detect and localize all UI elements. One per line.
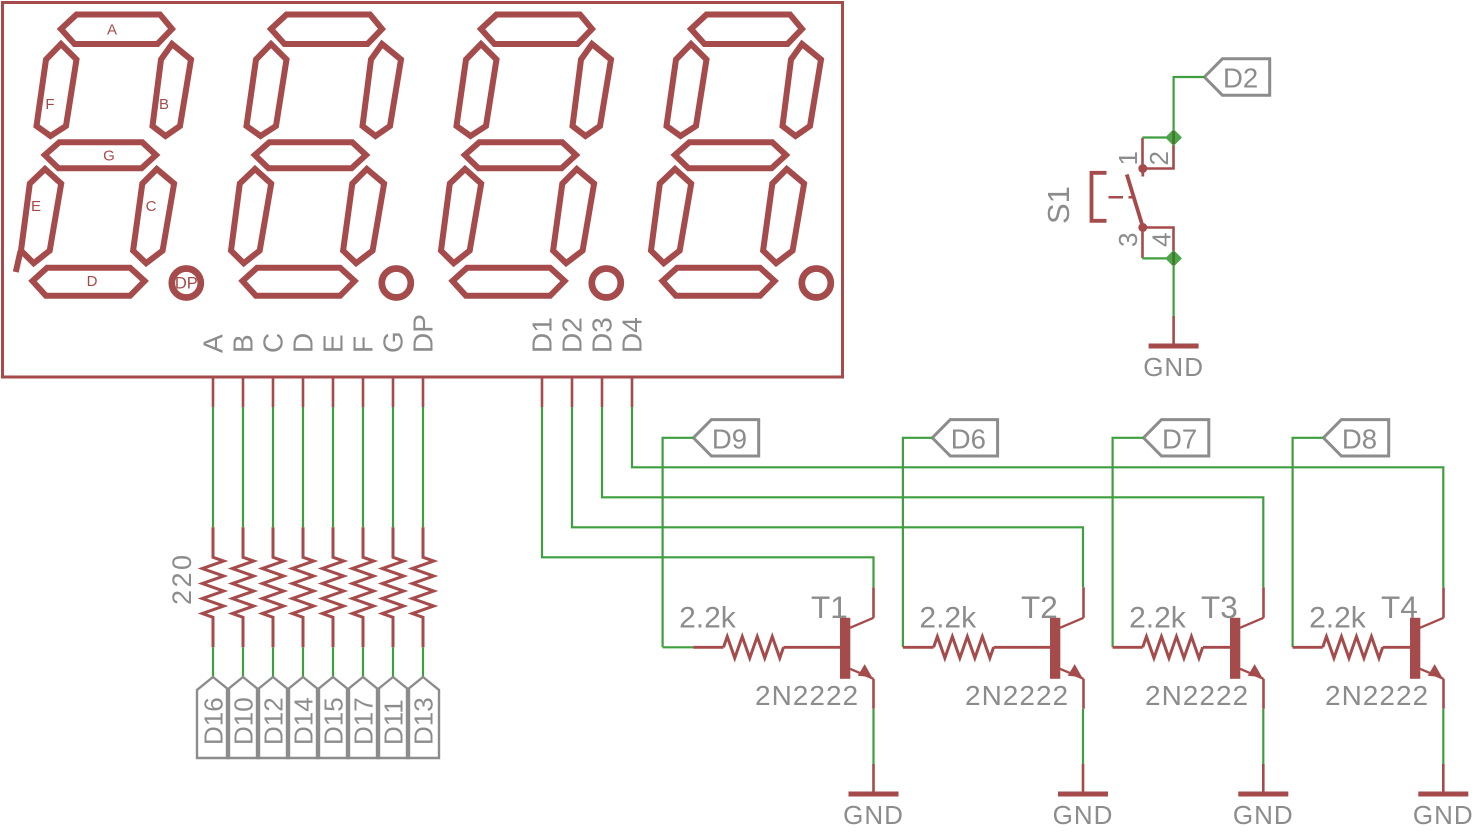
display pin D3	[601, 377, 604, 407]
svg-text:C: C	[258, 333, 289, 353]
svg-text:2N2222: 2N2222	[755, 680, 859, 711]
wire net D14 lower segment	[302, 647, 304, 677]
resistor 2.2k base resistor of T2	[903, 646, 934, 649]
wire net D13 lower segment	[422, 647, 424, 677]
resistor 2.2k base resistor of T4	[1293, 646, 1323, 649]
svg-text:D4: D4	[617, 317, 648, 353]
svg-text:2N2222: 2N2222	[965, 680, 1069, 711]
wire net D1 from display to driver collector	[542, 407, 874, 587]
transistor T2 2N2222	[1050, 587, 1084, 709]
svg-text:GND: GND	[1233, 800, 1294, 830]
svg-text:S1: S1	[1041, 186, 1076, 224]
display pin D	[302, 377, 305, 407]
svg-text:E: E	[318, 334, 349, 353]
switch S1 pin 1 / pin 2 outline	[1143, 138, 1174, 169]
svg-text:220: 220	[167, 552, 197, 605]
resistor 2.2k base resistor of T1	[693, 646, 723, 649]
resistor 220 in series with segment B	[232, 527, 254, 647]
svg-text:D11: D11	[379, 699, 409, 745]
wire net D6 from flag to base resistor	[903, 438, 932, 648]
svg-text:D12: D12	[259, 697, 289, 745]
wire net D2 switch pin link	[1142, 136, 1173, 138]
svg-text:D6: D6	[951, 423, 986, 454]
svg-text:D7: D7	[1162, 423, 1197, 454]
svg-text:GND: GND	[1143, 352, 1204, 382]
wire net D7 from flag to base resistor	[1113, 438, 1144, 648]
net flag D8	[1323, 420, 1388, 456]
display pin B	[242, 377, 245, 407]
svg-text:T2: T2	[1021, 589, 1058, 625]
net flag D16	[197, 677, 229, 758]
svg-text:B: B	[228, 334, 259, 353]
net flag D7	[1144, 420, 1209, 456]
svg-text:3: 3	[1113, 233, 1143, 247]
wire net D4 from display to driver collector	[632, 407, 1443, 587]
wire net GND below switch	[1142, 258, 1173, 316]
wire emitter of T3 to GND	[1262, 709, 1264, 764]
wire net D10 lower segment	[242, 647, 244, 677]
svg-text:2N2222: 2N2222	[1145, 680, 1249, 711]
ground symbol GND	[1238, 764, 1288, 794]
wire net D16 upper segment	[212, 407, 214, 527]
wire emitter of T2 to GND	[1082, 709, 1084, 764]
net flag D13	[407, 677, 439, 758]
wire emitter of T4 to GND	[1442, 709, 1444, 764]
svg-text:D15: D15	[319, 697, 349, 745]
svg-text:G: G	[378, 331, 409, 353]
ground symbol GND for S1	[1149, 316, 1199, 346]
svg-text:2N2222: 2N2222	[1325, 680, 1429, 711]
svg-text:2: 2	[1144, 151, 1174, 165]
resistor 220 in series with segment G	[382, 527, 404, 647]
svg-text:D2: D2	[557, 317, 588, 353]
transistor T1 2N2222	[840, 587, 874, 709]
resistor 220 in series with segment DP	[412, 527, 434, 647]
svg-text:F: F	[348, 336, 379, 353]
wire net D11 upper segment	[392, 407, 394, 527]
svg-text:D2: D2	[1223, 63, 1258, 94]
svg-text:2.2k: 2.2k	[679, 602, 737, 635]
display pin E	[332, 377, 335, 407]
svg-text:DP: DP	[408, 314, 439, 353]
net flag D9	[693, 420, 758, 456]
wire net D2 from flag to switch	[1174, 77, 1205, 138]
display pin G	[392, 377, 395, 407]
svg-text:D9: D9	[712, 423, 747, 454]
svg-text:1: 1	[1113, 151, 1143, 165]
net flag D11	[377, 677, 409, 758]
wire net D17 upper segment	[362, 407, 364, 527]
wire net D11 lower segment	[392, 647, 394, 677]
svg-text:D8: D8	[1342, 423, 1377, 454]
net flag D6	[932, 420, 997, 456]
svg-text:2.2k: 2.2k	[1309, 602, 1367, 635]
svg-text:A: A	[107, 22, 117, 39]
transistor T3 2N2222	[1230, 587, 1264, 709]
wire net D10 upper segment	[242, 407, 244, 527]
switch S1 lever	[1127, 174, 1143, 226]
svg-text:F: F	[45, 96, 54, 113]
svg-text:E: E	[31, 198, 41, 215]
resistor 220 in series with segment C	[262, 527, 284, 647]
ground symbol GND	[849, 764, 899, 794]
svg-text:G: G	[103, 148, 115, 165]
junction on switch GND net	[1167, 251, 1181, 265]
svg-text:D3: D3	[587, 317, 618, 353]
svg-text:D17: D17	[349, 697, 379, 745]
svg-text:DP: DP	[175, 275, 198, 293]
svg-text:T3: T3	[1201, 589, 1238, 625]
net flag D2	[1204, 59, 1269, 95]
net flag D12	[257, 677, 289, 758]
wire net D13 upper segment	[422, 407, 424, 527]
net flag D14	[287, 677, 319, 758]
wire net D9 horizontal stub	[663, 646, 694, 648]
wire emitter of T1 to GND	[872, 709, 874, 764]
wire net D2 from display to driver collector	[572, 407, 1083, 587]
display pin D2	[571, 377, 574, 407]
wire net D17 lower segment	[362, 647, 364, 677]
wire net D15 lower segment	[332, 647, 334, 677]
svg-text:T1: T1	[811, 589, 848, 625]
net flag D10	[227, 677, 259, 758]
svg-text:C: C	[146, 198, 157, 215]
segment E tail (digit 1)	[16, 251, 21, 272]
wire net D14 upper segment	[302, 407, 304, 527]
wire net D8 from flag to base resistor	[1293, 438, 1324, 648]
svg-text:GND: GND	[1053, 800, 1114, 830]
svg-text:B: B	[159, 96, 169, 113]
svg-text:GND: GND	[1413, 800, 1474, 830]
svg-text:4: 4	[1147, 233, 1177, 247]
7-segment digit 3	[441, 15, 621, 298]
display pin D4	[631, 377, 634, 407]
wire net D12 lower segment	[272, 647, 274, 677]
display pin D1	[541, 377, 544, 407]
svg-text:D: D	[288, 333, 319, 353]
ground symbol GND	[1058, 764, 1108, 794]
switch S1 pin 3 / pin 4 outline	[1143, 228, 1174, 259]
svg-text:D14: D14	[289, 697, 319, 745]
svg-text:2.2k: 2.2k	[1129, 602, 1187, 635]
ground symbol GND	[1418, 764, 1468, 794]
7-segment digit 4	[651, 15, 831, 298]
resistor 220 in series with segment D	[292, 527, 314, 647]
resistor 220 in series with segment F	[352, 527, 374, 647]
svg-text:A: A	[198, 334, 229, 353]
resistor 220 in series with segment E	[322, 527, 344, 647]
7-segment digit 2	[231, 15, 411, 298]
net flag D15	[317, 677, 349, 758]
transistor T4 2N2222	[1410, 587, 1444, 709]
net flag D17	[347, 677, 379, 758]
wire net D15 upper segment	[332, 407, 334, 527]
wire net D12 upper segment	[272, 407, 274, 527]
svg-text:D13: D13	[409, 697, 439, 745]
svg-text:D16: D16	[199, 697, 229, 745]
junction on net D2	[1167, 131, 1181, 145]
display pin C	[272, 377, 275, 407]
svg-text:D: D	[87, 273, 98, 290]
svg-text:2.2k: 2.2k	[919, 602, 977, 635]
resistor 220 in series with segment A	[202, 527, 224, 647]
switch S1 fixed contact top	[1138, 164, 1147, 173]
7-segment digit 1	[21, 15, 201, 298]
switch S1 actuator bracket	[1092, 173, 1107, 221]
wire net D3 from display to driver collector	[602, 407, 1263, 587]
wire net D16 lower segment	[212, 647, 214, 677]
svg-text:D1: D1	[527, 317, 558, 353]
svg-text:GND: GND	[843, 800, 904, 830]
4-digit 7-segment display module outline	[3, 3, 843, 378]
display pin F	[362, 377, 365, 407]
resistor 2.2k base resistor of T3	[1113, 646, 1143, 649]
switch S1 fixed contact bottom	[1138, 223, 1147, 232]
display pin DP	[422, 377, 425, 407]
display pin A	[212, 377, 215, 407]
wire net D9 from flag to base resistor	[663, 438, 694, 648]
svg-text:T4: T4	[1381, 589, 1418, 625]
svg-text:D10: D10	[229, 697, 259, 745]
